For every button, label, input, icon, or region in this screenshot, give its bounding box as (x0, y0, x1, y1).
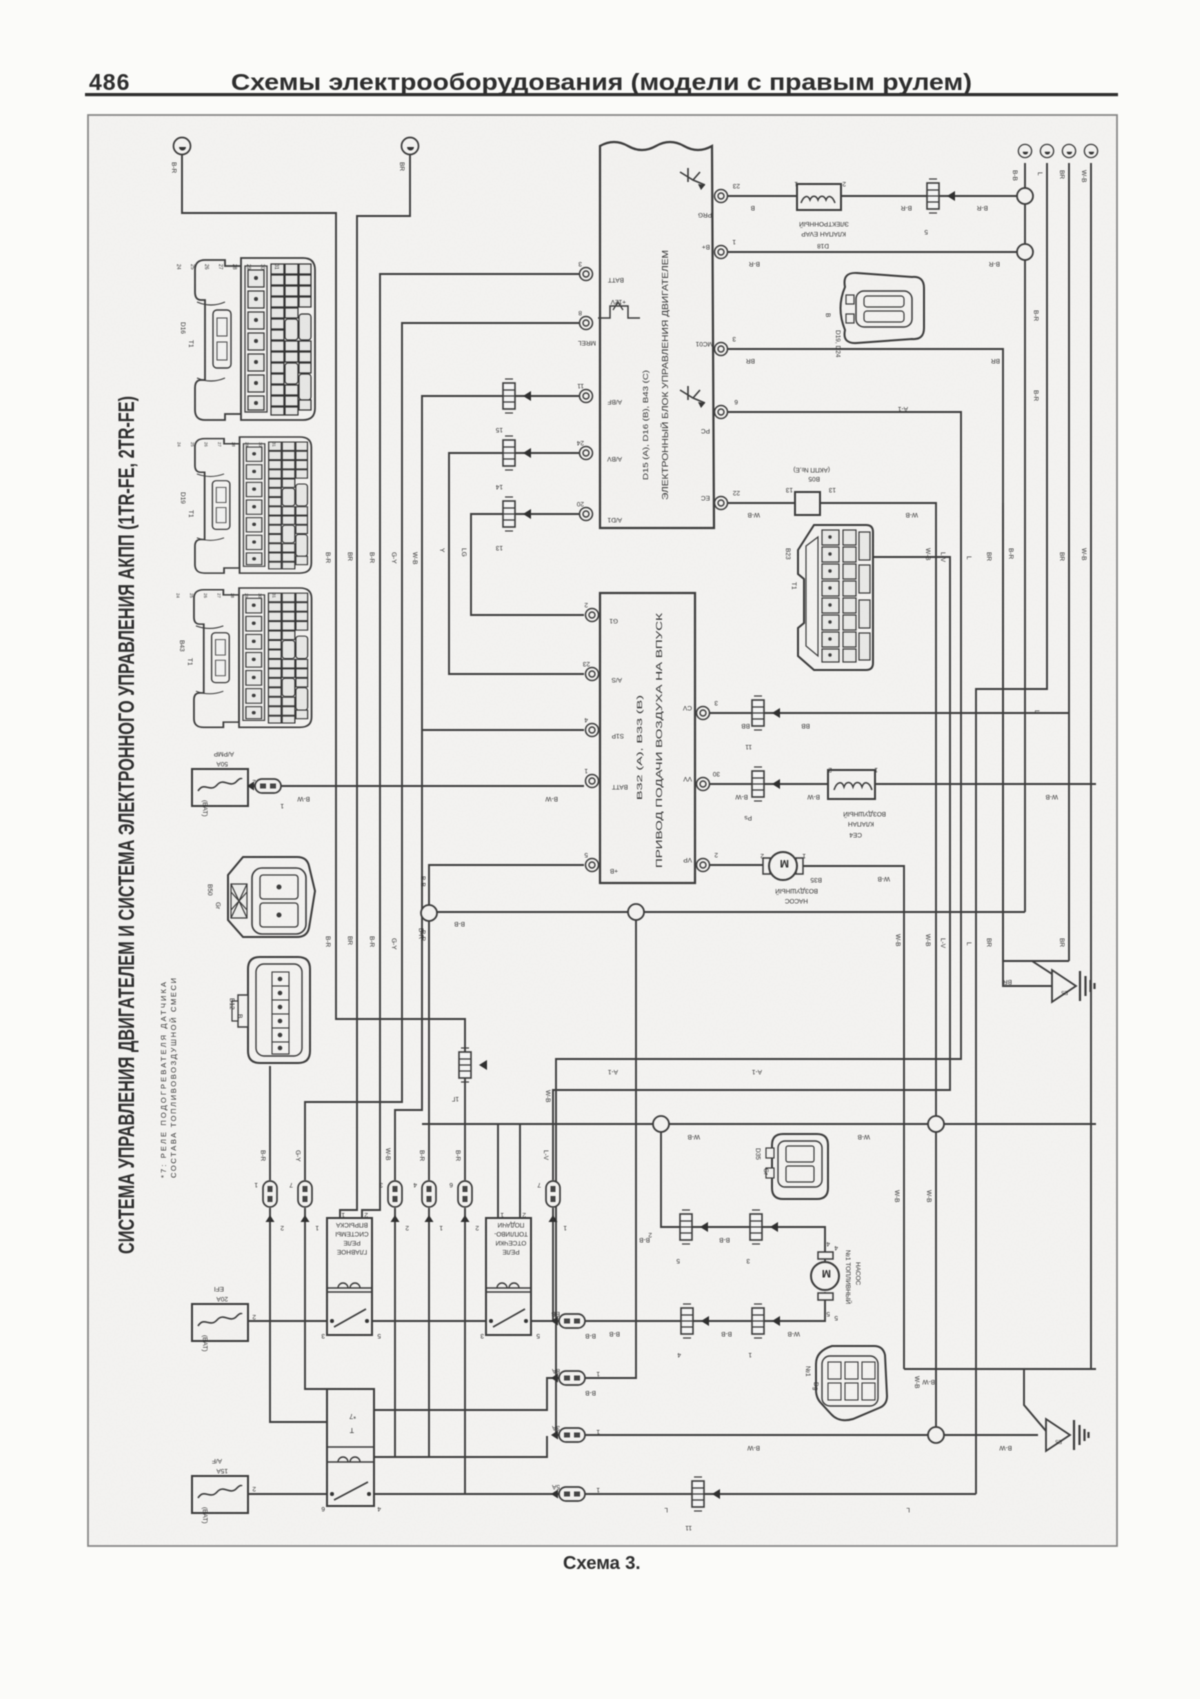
wire BR from ECU pin MC01 to top ground (728, 349, 1069, 961)
wire B-R drop to bottom ground (1024, 1369, 1046, 1431)
fuse element on pump bottom wire b (752, 1304, 780, 1338)
junction node on W-B bus left (653, 1116, 669, 1132)
air induction drive box U2 (600, 593, 695, 883)
terminal F (1084, 144, 1097, 157)
oval connector pair 2 G-Y (298, 1181, 312, 1222)
junction node on W-B bus right (928, 1116, 944, 1132)
ECU pin B+ (715, 246, 728, 259)
connector D16 (top multi-pin) (175, 258, 315, 420)
wire W-B from ECU pin A/BF through fuse 15 down long vertical (395, 396, 579, 1180)
wire continuation below oval 5 (464, 1208, 466, 1494)
fuse element 13 (503, 497, 531, 531)
scan noise overlay (89, 116, 1116, 1545)
B05 junction box on EC wire (785, 466, 836, 515)
wire L bottom from fuse A/F to relay *7 (248, 1493, 327, 1495)
transistor Q2 inside ECU at PC output (680, 386, 705, 408)
horizontal wire labels (rotated 180) (297, 204, 1059, 1513)
air drive pin BATT (586, 775, 599, 788)
oval connector 4A right column (551, 1487, 585, 1501)
air drive pin VP (697, 859, 710, 872)
wire B-B from oval BB through fuses to fuel pump (585, 1292, 825, 1321)
air pump motor B35 (760, 852, 822, 904)
connector B43 (lower multi-pin) (175, 588, 311, 727)
wire W-B long horizontal bus (422, 1123, 1096, 1125)
ECU pin A/D1 (580, 508, 593, 521)
wire continuation below oval 4 (428, 1208, 430, 1457)
fuse element on pump top wire a (680, 1210, 708, 1244)
wire W-B lower horizontal to ground riser (904, 1368, 1096, 1370)
terminal C (1018, 144, 1031, 157)
wire BR from terminal E to top ground (1068, 163, 1070, 961)
air valve CE4 (828, 766, 886, 838)
wire from relay *7 to oval 8A (374, 1378, 559, 1410)
ECU pin A/BF (580, 390, 593, 403)
wire A-1 from ECU pin PC down and to oval 3A (556, 412, 961, 1435)
junction node on B+ wire (1017, 244, 1033, 260)
air drive pin 3 (697, 707, 710, 720)
wire W-B from ECU pin EC long vertical (728, 503, 936, 1435)
fuel cut relay (486, 1218, 531, 1335)
wire W-B from air valve CE4 to vertical F (875, 783, 1096, 785)
wire BR from terminal B to injection main relay (340, 154, 410, 1219)
wire from relay *7 coil to A-1 riser (374, 1436, 547, 1457)
oval connector pair 1 B-R (263, 1181, 277, 1222)
oval connector pair 5 B-R (458, 1181, 472, 1222)
air drive pin A/S (586, 668, 599, 681)
wire stub fuel cut relay coil a (497, 1124, 499, 1218)
outer schematic frame (88, 115, 1117, 1546)
oval connector pair 3 W-B (388, 1181, 402, 1222)
terminal D (1040, 144, 1053, 157)
air drive pin S1P (586, 724, 599, 737)
oval connector 3A right column (551, 1428, 585, 1442)
wire from air drive VP pin to air pump motor (703, 864, 770, 866)
wire W-B from terminal F down (1090, 163, 1092, 1369)
oval connector pair 4 B-R (422, 1181, 436, 1222)
footnote *7 vertical caption (159, 978, 178, 1178)
header rule (85, 93, 1118, 96)
relay *7 oxygen sensor heater (327, 1389, 374, 1506)
terminal B (402, 138, 419, 155)
fuse box A/F 15A (192, 1457, 256, 1524)
wire B-R terminal C long vertical to bottom ground (1024, 163, 1026, 912)
svg-text:486: 486 (89, 69, 130, 95)
ECU pin EC (715, 497, 728, 510)
ECU pin BATT (580, 268, 593, 281)
connector D19 D24 round (824, 273, 924, 358)
EVAP purge valve D18 (794, 180, 849, 249)
wire from connector B12 down to oval 1 (269, 1066, 271, 1180)
wire W-B from air pump motor down (797, 866, 904, 1369)
wire from fuel pump top to W-B bus (661, 1124, 825, 1261)
connector D9 six pin (804, 1346, 887, 1420)
connector B23 (798, 525, 873, 670)
ECU pin PC (715, 406, 728, 419)
terminal A (174, 138, 191, 155)
wire from node down to oval 8A (585, 912, 636, 1378)
fuse element 5 on PRG wire (927, 179, 955, 213)
connector B12 (228, 957, 310, 1063)
wire B-W to bottom ground (936, 1434, 1038, 1436)
fuse element 14 (503, 436, 531, 470)
wire G-Y continuation below oval 2 into relay *7 (305, 1208, 332, 1389)
MREL +12V symbol inside ECU (598, 302, 640, 318)
connector B50 (206, 857, 315, 937)
wire label B-R at terminal A (170, 162, 1087, 1389)
ECU pin A/BV (580, 447, 593, 460)
fuse element on pump bottom wire a (681, 1304, 709, 1338)
wire stub oval 3A to riser (585, 1434, 936, 1436)
junction node on PRG wire (1017, 188, 1033, 204)
wire continuation below oval 1 to relay *7 branch (270, 1208, 327, 1422)
junction node on bottom ground wire (928, 1427, 944, 1443)
fuse element on VV wire (752, 767, 780, 801)
oval connector pair 6 L-V (546, 1181, 560, 1222)
ground G1 top right (1052, 970, 1095, 1002)
oval connector BB right column (551, 1314, 585, 1328)
svg-text:Схема 3.: Схема 3. (563, 1552, 641, 1573)
wire B-W from air drive pin VV through air valve CE4 (710, 783, 828, 785)
wire BR horizontal into top ground (1003, 503, 1052, 986)
wire L from terminal D down jog (976, 163, 1047, 1494)
ECU box U1: electronic engine control unit (600, 142, 714, 528)
wire LG from ECU pin A/D1 through fuse 13 to G1 pin (471, 514, 584, 615)
wire B-B between relays (372, 1320, 486, 1322)
wire G-Y from ECU pin MREL down to oval connector 2 (305, 323, 579, 1180)
fuse element 11a on pin3 wire (752, 696, 780, 730)
wire BR diagonal into top ground (1032, 961, 1052, 974)
terminal E (1062, 144, 1075, 157)
junction node on B-B bus (628, 904, 644, 920)
fuse box EFI No.2 A/PMP 50A (192, 750, 256, 817)
wire continuation below oval 6 (552, 1208, 554, 1321)
fuse element on B-R oval5 riser (459, 1048, 487, 1082)
wire B-R from terminal A down and across to long vertical (182, 154, 465, 1180)
wire B-W from fuse A/PMP to air drive BATT pin (248, 785, 584, 787)
wire B-B from fuse EFI to main relay (248, 1320, 327, 1322)
air drive pin VV (697, 778, 710, 791)
fuel pump motor (811, 1244, 861, 1321)
misc pin number labels (321, 1211, 830, 1512)
wire B-R from ECU pin PRG through EVAP valve to junction (728, 195, 1018, 197)
wire W-B branch to air drive S1P pin (422, 729, 584, 731)
fuse element 15 (503, 379, 531, 413)
air drive pin G1 (586, 609, 599, 622)
wire continuation below oval 3 (394, 1208, 396, 1457)
wire stub fuel cut relay coil b (519, 1124, 521, 1218)
oval connector 8A right column (551, 1371, 585, 1385)
oval terminal 1 after A/PMP fuse (247, 779, 281, 793)
transistor Q1 inside ECU at PRG output (680, 168, 705, 190)
connector D35 (754, 1134, 828, 1199)
wire B-B from fuel cut relay to oval BB (530, 1320, 559, 1322)
wire Y from ECU pin A/BV through fuse 14 to A/S pin (449, 453, 584, 674)
junction node on +B riser (421, 905, 437, 921)
air drive pin +B (586, 859, 599, 872)
fuse element on pump top wire b (750, 1210, 778, 1244)
fuse element 11 on bottom L wire (692, 1477, 720, 1511)
svg-text:Схемы электрооборудования (мод: Схемы электрооборудования (модели с прав… (231, 69, 972, 95)
wire L-V from connector B23 down to oval 6 (553, 557, 950, 1180)
wire B-B from air drive +B pin down to oval 4 (429, 865, 584, 1180)
injection main relay (327, 1218, 372, 1335)
wire B-R from ECU pin BATT down left vertical to relay (362, 274, 579, 1219)
ground G2 bottom right (1046, 1419, 1089, 1451)
wire B-B horizontal node bus (429, 911, 1025, 913)
wire L bottom from relay *7 through oval 4A to riser (374, 1493, 976, 1495)
ECU pin MC01 (715, 343, 728, 356)
ECU pin PRG (715, 190, 728, 203)
wire BB from air drive pin 3 through fuse 11 (710, 712, 1069, 714)
fuse box EFI 20A (192, 1285, 256, 1352)
ECU pin MREL (580, 317, 593, 330)
wire B-R from ECU pin B+ to junction (728, 251, 1018, 253)
connector D19 (middle multi-pin) (176, 437, 311, 573)
